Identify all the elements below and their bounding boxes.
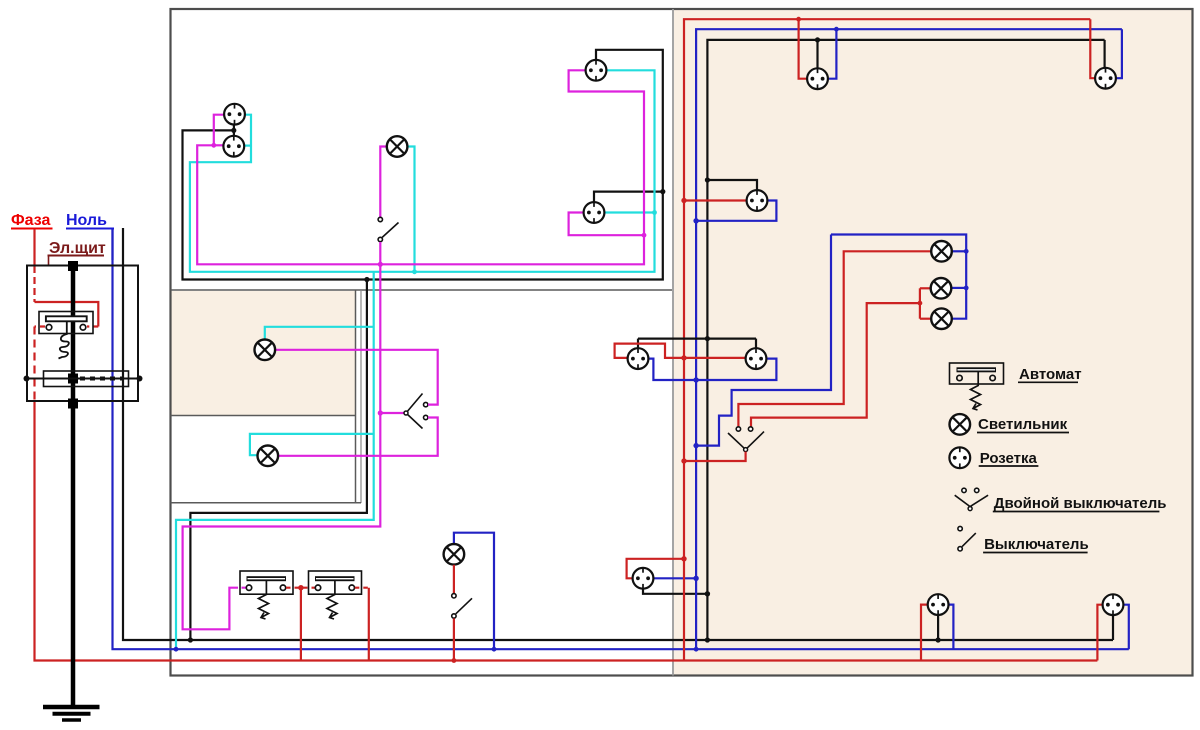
socket XS3 [586, 60, 607, 81]
wire: magenta dash into QF1 [234, 587, 246, 589]
wire: room1 magenta phase run [197, 70, 644, 264]
socket XS9 [628, 348, 649, 369]
socket XS8 red tie [684, 199, 746, 201]
wire: red feed of socket XS5 [627, 559, 684, 579]
svg-text:Ноль: Ноль [66, 212, 107, 229]
socket XS11 blue drop [949, 605, 954, 650]
label Ноль [66, 212, 114, 229]
node: black trunk joins bottom run [188, 637, 193, 642]
wire: red lamp EL4 to switch SA3 [453, 565, 455, 594]
node: black junction XS11 [936, 637, 941, 642]
socket XS4 [584, 202, 605, 223]
apartment outer wall [171, 9, 1193, 676]
wire: red below switch SA3 [453, 618, 455, 660]
socket XS1 [224, 104, 245, 125]
wire: cyan stub to socket XS2 [244, 145, 251, 147]
legend lamp symbol [950, 414, 971, 435]
wire: phase bottom run (red) [35, 402, 1098, 661]
svg-text:Выключатель: Выключатель [984, 536, 1089, 553]
breaker QF0 terminal left [46, 325, 52, 331]
legend label Автомат [1018, 366, 1082, 383]
wire: red dash from QF2 right [355, 587, 369, 589]
legend label Светильник [977, 416, 1069, 433]
legend label Выключатель [983, 536, 1089, 553]
node: cyan trunk joins blue bottom run [174, 647, 179, 652]
svg-text:Розетка: Розетка [980, 450, 1038, 467]
breaker QF2 terminal left [315, 585, 320, 590]
wire: magenta below switch SA1 to room run [379, 242, 381, 264]
breaker QF0 terminal right [80, 325, 86, 331]
wire: blue feed of socket XS5 [654, 577, 697, 579]
wire: black earth of socket XS5 [643, 589, 707, 594]
breaker QF1 terminal right [280, 585, 285, 590]
node: blue junction on right feed [693, 576, 698, 581]
main earth conductor (thick black) [71, 266, 76, 708]
node: cyan junction at XS4 [652, 210, 657, 215]
node: magenta junction at double switch SA2 [378, 410, 383, 415]
wire: black feed trunk right half [707, 40, 1104, 640]
socket XS8 blue tie [696, 201, 776, 221]
wire: dashed phase link to breaker terminals (red) [87, 325, 98, 327]
wire: blue staircase to feed [696, 235, 831, 446]
wire: blue tap lamp EL5 [952, 250, 966, 252]
socket XS12 black drop [1112, 615, 1114, 640]
breaker QF1 contact bar [247, 576, 287, 581]
wire: blue loop for hall lamp EL4 [454, 533, 494, 650]
node: black junction XS6 [815, 37, 820, 42]
wire: red from SA4 common to feed [684, 452, 746, 461]
wire: blue link sockets XS9-XS10 [649, 359, 777, 380]
wire: magenta from SA2 up contact to lamp EL2 [275, 350, 437, 405]
node: blue feed joins bottom run [694, 647, 699, 652]
wire: blue rail of lamp group [831, 235, 966, 319]
svg-text:Эл.щит: Эл.щит [49, 240, 106, 257]
node: blue junction EL5 [964, 249, 969, 254]
socket XS12 blue drop [1124, 605, 1129, 650]
breaker QF1 terminal left [246, 585, 251, 590]
breaker QF0 contact bar [46, 316, 87, 321]
lamp EL6 [931, 278, 952, 299]
breaker QF0 body [39, 312, 93, 334]
socket XS10 black stub [755, 339, 757, 348]
node: black trunk top junction [364, 277, 369, 282]
wire: red drop from breaker junction [300, 588, 302, 661]
socket XS6 red drop [799, 19, 808, 78]
node: magenta junction at XS2 [211, 143, 216, 148]
wire: black stub linking sockets XS1/XS2 [233, 124, 235, 138]
node: red junction XS8 [681, 198, 686, 203]
breaker QF2 body [309, 571, 362, 594]
wire: black tap to socket XS4 [594, 192, 663, 203]
socket XS6 black drop [816, 40, 818, 69]
breaker QF2 contact bar [315, 576, 355, 581]
lamp EL3 [258, 446, 279, 467]
switch SA4 (double) [728, 427, 764, 452]
legend socket symbol [949, 447, 970, 468]
breaker QF2 terminal right [349, 585, 354, 590]
node: blue junction on feed [693, 377, 698, 382]
neutral bar dashes [80, 377, 122, 381]
node: red junction EL6 EL7 [918, 301, 923, 306]
node: black junction XS8 [705, 177, 710, 182]
wire: cyan trunk down to hall [176, 272, 374, 649]
socket XS11 black drop [937, 615, 939, 640]
node: magenta junction at XS4 jog [642, 233, 647, 238]
node: bus right end [137, 376, 143, 382]
wire: red feed trunk right half [684, 19, 1090, 660]
socket XS7 black drop [1103, 40, 1105, 68]
socket XS7 blue link [1116, 29, 1122, 78]
node: black feed joins bottom run [705, 637, 710, 642]
label Эл.щит [48, 240, 106, 266]
node: black tap junction [660, 189, 665, 194]
socket XS11 [928, 594, 949, 615]
breaker QF1 body [240, 571, 293, 594]
node: earth at panel bottom [68, 399, 78, 409]
node: bus left end [24, 376, 30, 382]
svg-text:Автомат: Автомат [1019, 366, 1082, 383]
legend breaker symbol [950, 363, 1004, 410]
wire: magenta from SA2 low contact to lamp EL3 [278, 418, 437, 456]
wire: red branch lamps EL6 EL7 [920, 287, 931, 289]
wire: room1 black loop [183, 50, 663, 280]
socket XS7 [1095, 68, 1116, 89]
wire: blue feed trunk right half [696, 29, 1122, 649]
socket XS5 [633, 568, 654, 589]
socket XS9 black stub [637, 339, 639, 348]
wire: cyan drop from lamp EL1 [408, 147, 415, 272]
node: red junction XS6 [796, 17, 801, 22]
switch SA2 (double) [404, 394, 428, 429]
node: blue junction EL6 [964, 286, 969, 291]
wire: red link sockets XS9-XS10 [615, 344, 746, 358]
svg-text:Двойной выключатель: Двойной выключатель [994, 495, 1167, 512]
wire: magenta stub to socket XS2 [214, 144, 224, 146]
wire: black trunk down to hall [190, 280, 367, 641]
node: magenta trunk junction [378, 262, 383, 267]
node: blue junction at bottom run [492, 647, 497, 652]
socket XS12 [1103, 594, 1124, 615]
socket XS2 [223, 136, 244, 157]
node: blue junction XS6 [834, 27, 839, 32]
node: black junction between sockets XS1/XS2 [231, 128, 236, 133]
breaker QF2 spring [327, 581, 337, 619]
wire: red dash QF1 to QF2 [286, 587, 316, 589]
wire: cyan stub to socket XS4 [605, 211, 655, 213]
socket XS6 blue link [828, 29, 836, 78]
wire: cyan branch to lamp EL3 [250, 434, 374, 455]
lamp EL4 [444, 544, 465, 565]
node: black junction on feed [705, 336, 710, 341]
legend double switch symbol [955, 488, 988, 510]
lamp EL5 [931, 241, 952, 262]
panel enclosure box [27, 266, 138, 402]
legend label Двойной выключатель [993, 495, 1167, 512]
beige room bottom wall [171, 415, 356, 417]
wire: PE bottom run (black) [123, 228, 1113, 640]
lamp EL2 [254, 340, 275, 361]
lower-left room bottom wall [171, 502, 362, 504]
node: blue junction staircase at feed [693, 443, 698, 448]
wire: magenta link to switch SA2 common [380, 412, 404, 414]
lamp EL7 [931, 308, 952, 329]
breaker QF0 actuator spring [59, 321, 69, 358]
node: red junction on feed [681, 355, 686, 360]
node: earth at neutral bar [68, 374, 78, 384]
left beige room floor (kitchen) [171, 291, 355, 415]
wall under top-left room [171, 289, 673, 291]
wire: cyan branch to lamp EL2 [265, 327, 374, 340]
wire: magenta trunk down to hall [183, 264, 381, 629]
neutral bar bus line [27, 378, 140, 380]
socket XS10 [746, 348, 767, 369]
socket XS8 [747, 190, 768, 211]
node: cyan junction lamp drop [412, 269, 417, 274]
breaker QF1 spring [259, 581, 269, 619]
wire: magenta lamp EL1 to switch SA1 [380, 147, 387, 218]
wire: phase drop from Фаза label (red) [33, 229, 35, 266]
socket XS11 red drop [921, 605, 928, 661]
wire: neutral bottom run (blue) [113, 228, 1129, 649]
node: black junction on right feed [705, 591, 710, 596]
wire: blue tap lamp EL6 [951, 287, 966, 289]
wire: magenta jog to socket XS4 [569, 213, 644, 236]
node: red junction on right feed [681, 556, 686, 561]
socket XS12 red drop [1097, 605, 1102, 661]
wire: neutral drop from Ноль label (blue) [111, 229, 113, 260]
node: red junction SA4 at feed [681, 458, 686, 463]
socket XS8 black tie [707, 180, 757, 190]
socket XS6 [807, 68, 828, 89]
socket XS7 red drop [1090, 19, 1095, 78]
neutral bar box [44, 371, 129, 387]
ground symbol [43, 707, 100, 720]
wire: black link sockets XS9-XS10 through wall [638, 338, 756, 340]
svg-text:Светильник: Светильник [978, 416, 1068, 433]
svg-text:Фаза: Фаза [11, 212, 50, 229]
wire: red branch lamp EL5 to switch SA4 [738, 251, 931, 426]
wire: red drop from QF2 to bottom run [368, 588, 370, 661]
node: red junction at bottom run [452, 658, 457, 663]
node: red junction between breakers [298, 585, 303, 590]
node: blue junction XS8 [693, 218, 698, 223]
label Фаза [11, 212, 53, 229]
right half room floor (beige) [674, 10, 1192, 675]
legend single switch symbol [958, 526, 976, 551]
legend label Розетка [979, 450, 1039, 467]
wire: room1 cyan neutral run [190, 70, 655, 271]
node: earth at panel top [68, 261, 78, 271]
switch SA3 (single) [452, 594, 472, 619]
beige room right wall (double) [355, 290, 357, 503]
wire: red staircase to switch SA4 [751, 303, 920, 427]
lamp EL1 [387, 136, 408, 157]
switch SA1 (single) [378, 217, 398, 241]
middle partition wall [672, 9, 674, 676]
